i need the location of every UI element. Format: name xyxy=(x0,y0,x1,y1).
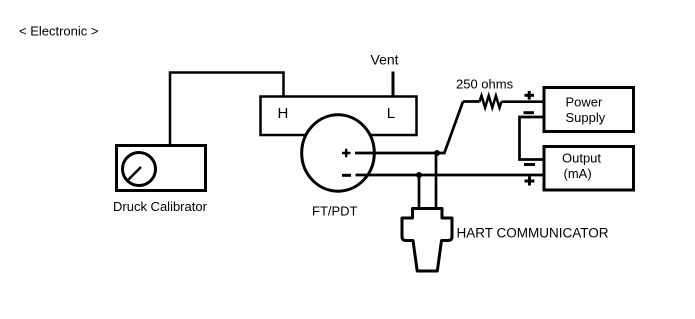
resistor 250 ohms xyxy=(480,96,502,108)
svg-text:Druck Calibrator: Druck Calibrator xyxy=(113,199,208,214)
node junction minus xyxy=(416,172,422,178)
minus sign at power supply xyxy=(524,111,535,114)
svg-text:Vent: Vent xyxy=(371,51,399,67)
Druck Calibrator box xyxy=(117,146,206,191)
minus sign at output xyxy=(524,163,535,166)
node junction plus xyxy=(434,150,440,156)
Output box xyxy=(544,147,634,191)
transmitter FT/PDT circle xyxy=(302,115,375,191)
svg-text:< Electronic >: < Electronic > xyxy=(19,24,99,39)
plus sign at power supply xyxy=(525,91,535,100)
svg-text:250 ohms: 250 ohms xyxy=(456,77,514,92)
svg-text:Supply: Supply xyxy=(566,110,606,125)
wire hart lead right xyxy=(435,153,438,209)
plus sign at output xyxy=(525,177,535,186)
vent line xyxy=(392,72,395,97)
gauge needle xyxy=(129,167,142,180)
svg-text:FT/PDT: FT/PDT xyxy=(312,204,358,219)
Power Supply box xyxy=(544,88,634,132)
HART communicator body xyxy=(402,209,452,272)
svg-text:Power: Power xyxy=(566,95,604,110)
svg-text:HART COMMUNICATOR: HART COMMUNICATOR xyxy=(457,226,609,241)
wire resistor lead left xyxy=(463,100,480,103)
wire hart lead left xyxy=(418,175,421,209)
svg-text:Output: Output xyxy=(562,151,601,166)
svg-text:H: H xyxy=(278,105,289,122)
wire minus to output xyxy=(356,174,544,177)
H/L manifold box xyxy=(261,97,417,136)
wire loop power supply to output xyxy=(520,117,544,160)
wire calibrator to H port xyxy=(170,73,284,146)
svg-text:(mA): (mA) xyxy=(564,166,592,181)
svg-text:L: L xyxy=(387,105,395,122)
wire resistor lead right to power supply xyxy=(502,100,544,103)
wire plus to junction xyxy=(355,152,445,155)
wire diagonal to resistor xyxy=(444,102,463,155)
transmitter minus terminal xyxy=(342,174,351,177)
transmitter plus terminal xyxy=(342,149,351,157)
gauge dial xyxy=(123,153,156,186)
